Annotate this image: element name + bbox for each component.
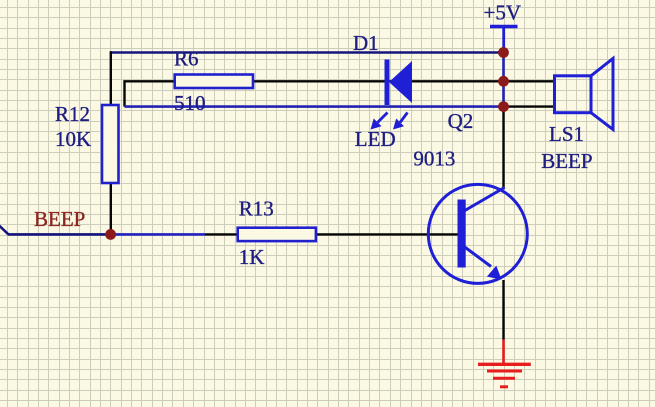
resistor R13 body — [238, 228, 316, 241]
svg-text:R6: R6 — [174, 47, 199, 71]
wire: BEEP to R13 (black part) — [205, 233, 238, 235]
junction dot node at top rail — [498, 47, 509, 58]
transistor Q2 collector lead — [464, 188, 505, 212]
resistor R6 body — [175, 75, 253, 89]
svg-text:9013: 9013 — [413, 147, 455, 171]
LED emission arrow 2 — [393, 113, 408, 130]
diode D1 triangle — [389, 61, 412, 103]
wire: +5V vertical between nodes — [502, 53, 505, 107]
resistor R12 body — [102, 105, 119, 183]
junction dot BEEP node — [105, 229, 116, 240]
wire: BEEP net entering from left — [0, 225, 111, 235]
svg-text:LS1: LS1 — [549, 122, 584, 146]
svg-text:510: 510 — [174, 91, 206, 115]
svg-text:1K: 1K — [239, 245, 265, 269]
wire: lower rail from node to speaker (black) — [504, 105, 555, 107]
svg-text:10K: 10K — [55, 127, 91, 151]
power +5V symbol — [490, 27, 518, 53]
svg-text:+5V: +5V — [484, 0, 522, 24]
transistor Q2 emitter lead with arrow — [464, 247, 502, 280]
transistor Q2 base bar — [458, 200, 466, 268]
wire: vertical from top rail down to R12 top — [110, 51, 112, 105]
wire: top rail from R12 corner to +5V node — [111, 51, 504, 54]
svg-text:BEEP: BEEP — [541, 149, 592, 173]
wire: middle rail from R6 to speaker (through D1) — [253, 80, 555, 82]
svg-text:BEEP: BEEP — [34, 207, 85, 231]
wire: L-corner connecting middle rail to lower rail — [125, 81, 176, 106]
speaker LS1 horn — [591, 59, 613, 130]
wire: lower rail from corner to +5V node (blue) — [125, 105, 504, 108]
wire: R12 bottom to BEEP node — [110, 183, 112, 234]
junction dot node at lower rail — [498, 101, 509, 112]
svg-text:R12: R12 — [55, 102, 90, 126]
svg-text:LED: LED — [355, 127, 396, 151]
speaker LS1 body rectangle — [555, 76, 592, 113]
wire: Q2 emitter to ground — [502, 280, 504, 340]
ground symbol — [478, 340, 531, 387]
wire: BEEP node to R13 (blue part) — [111, 233, 205, 236]
transistor Q2 circle — [428, 184, 527, 283]
svg-text:D1: D1 — [353, 31, 379, 55]
LED emission arrow 1 — [371, 113, 388, 130]
diode D1 cathode bar — [385, 60, 390, 106]
wire: node to Q2 collector — [502, 107, 504, 189]
svg-text:R13: R13 — [239, 197, 274, 221]
wire: R13 to Q2 base — [316, 233, 458, 235]
svg-text:Q2: Q2 — [448, 109, 474, 133]
junction dot node at middle rail — [498, 76, 509, 87]
